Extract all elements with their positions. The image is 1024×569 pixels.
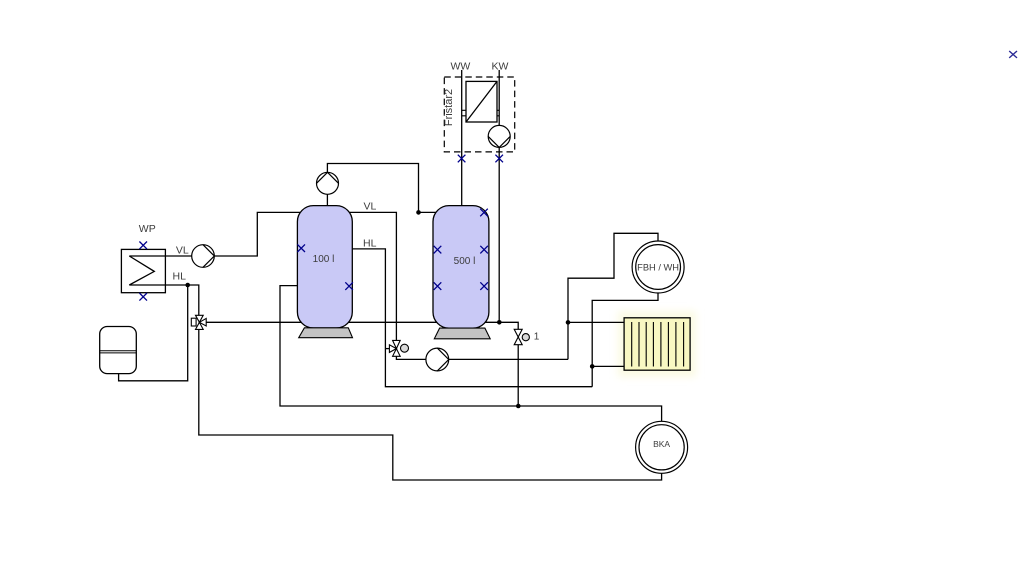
svg-text:100 l: 100 l [313, 254, 335, 265]
wire tank1 lower left port to y=406 line to BKA [280, 286, 662, 422]
radiator [624, 318, 690, 370]
wire bottom valve to pump to x=568 [396, 356, 568, 359]
X sensor tank1 left [297, 244, 305, 252]
wire WW drop [461, 70, 463, 207]
wire left valve down to BKA return [199, 330, 662, 481]
pump Fristar2 [488, 125, 510, 147]
WP heat pump box [121, 249, 165, 292]
svg-text:VL: VL [176, 245, 189, 257]
wire radiator return [592, 365, 624, 367]
svg-text:BKA: BKA [653, 439, 670, 449]
sensor X marks [139, 155, 503, 301]
wire radiator supply [568, 321, 624, 323]
HX left connection tab [462, 110, 466, 116]
HX right connection tab [497, 110, 499, 116]
wire tank1 top pump loop [327, 164, 437, 213]
svg-text:HL: HL [363, 238, 377, 250]
node distributor junction [566, 320, 571, 325]
X valve KW [495, 155, 503, 163]
close button X top right [1009, 51, 1017, 58]
svg-text:FBH / WH: FBH / WH [637, 262, 679, 272]
2-way valve 1 (at 518.2,337) [514, 329, 529, 344]
wire KW drop [498, 70, 500, 322]
junction dots [185, 210, 594, 408]
X sensor tank2 left lower [434, 282, 442, 290]
X sensor tank2 left upper [434, 246, 442, 254]
wire tank1 HL down and right [352, 249, 592, 387]
node pump-line corner dot [416, 210, 421, 215]
radiator halo [618, 311, 696, 377]
X sensor WP bottom [139, 293, 147, 301]
X sensor tank1 right [345, 282, 353, 290]
Fristar2 dashed box [444, 77, 514, 152]
wire WP VL to pump and tank1 [129, 212, 301, 256]
wire bottom valve left stub [385, 348, 389, 350]
tank1 base [299, 328, 353, 338]
3-way valve with actuator (bottom, at 396.4,348.6) [389, 340, 408, 356]
node KW junction [497, 320, 502, 325]
svg-text:VL: VL [364, 200, 377, 212]
wire HL from WP to left valve [129, 285, 199, 315]
node radiator return junction [590, 364, 595, 369]
svg-text:500 l: 500 l [454, 256, 476, 267]
X sensor tank2 right upper [480, 246, 488, 254]
BKA circle [636, 421, 688, 473]
tank 100l [297, 206, 352, 328]
heat exchanger square [466, 81, 497, 122]
svg-text:WP: WP [139, 223, 156, 235]
svg-text:HL: HL [173, 271, 187, 283]
X valve WW [458, 155, 466, 163]
X sensor WP top [139, 242, 147, 250]
svg-text:WW: WW [451, 61, 471, 73]
FBH / WH circle [632, 241, 684, 293]
tank 500l [433, 206, 489, 329]
tank2 base [434, 328, 490, 339]
wire main line y=322.3 valve to corner x=518.2 [206, 322, 518, 406]
node HL/vessel junction [185, 283, 190, 288]
svg-text:Fristar2: Fristar2 [443, 89, 455, 126]
wire pump circuit to junction x=568 [568, 233, 658, 359]
3-way mixing valve left (at 199.5,322.3) [191, 315, 206, 329]
wire tank1 VL right to bottom valve [349, 212, 397, 340]
expansion vessel [100, 327, 137, 374]
wire expansion vessel branch [119, 285, 188, 381]
X sensor tank2 top right [480, 209, 488, 217]
X sensor tank2 right lower [480, 282, 488, 290]
svg-text:1: 1 [534, 331, 540, 342]
node valve1 bottom junction [516, 404, 521, 409]
pump WP [192, 245, 215, 268]
pump bottom center [426, 348, 449, 371]
pump tank1 top [317, 172, 339, 194]
wire FBH return to radiator return [592, 293, 658, 387]
svg-text:KW: KW [492, 61, 509, 73]
